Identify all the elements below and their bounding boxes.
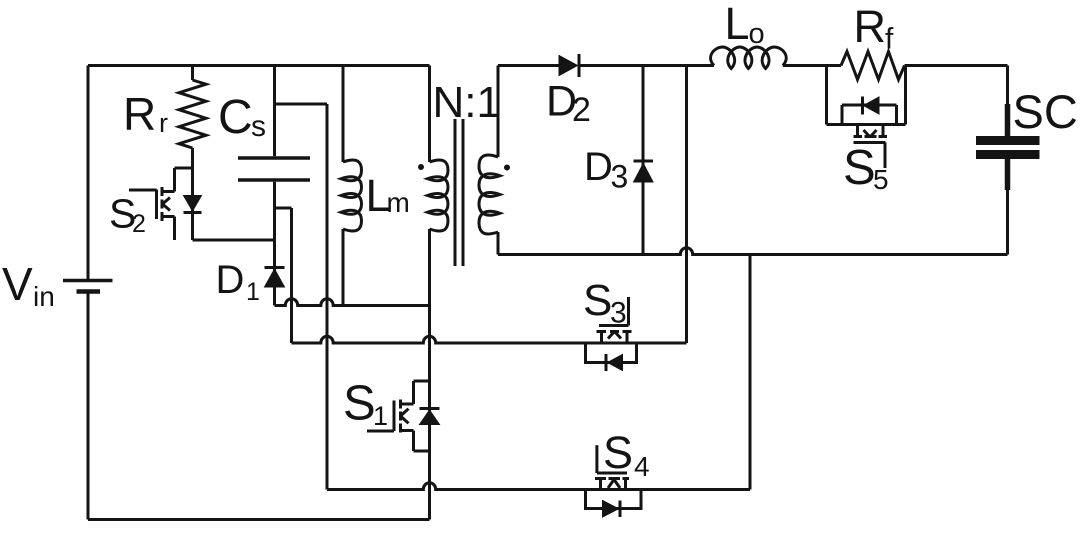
inductor Lo [711,47,787,69]
svg-text:in: in [33,281,55,312]
svg-text:L: L [725,0,750,49]
label D3 [584,145,628,195]
diode D3 [634,161,654,182]
wire Lo to Rf [783,64,841,67]
transistor S5 frame [827,66,906,125]
wire S4 row [327,483,750,490]
svg-text:1: 1 [246,278,260,306]
label Cs [218,91,266,144]
svg-text:2: 2 [132,210,146,238]
body diode of S1 [420,409,440,425]
transformer secondary winding [479,66,500,255]
transformer core [455,119,463,266]
wire S3 row [292,336,687,343]
svg-text:3: 3 [611,159,629,195]
resistor Rf [841,52,905,80]
svg-text:R: R [123,88,156,140]
svg-text:f: f [885,23,894,56]
label SC [1013,85,1078,138]
svg-text:s: s [251,110,266,143]
wire S4 right riser [749,255,752,490]
label Rf [854,1,895,56]
svg-text:o: o [749,18,765,50]
wire secondary bottom rail [498,248,1008,255]
svg-text:4: 4 [634,451,650,482]
supercapacitor SC [976,141,1040,155]
label N:1 [433,78,501,127]
label S1 [343,377,388,432]
transistor S4 [586,445,642,508]
wire top-left rail [88,64,430,67]
transistor S5 [854,125,888,169]
svg-text:D: D [216,258,245,302]
label D1 [216,258,260,306]
svg-text:S: S [583,276,612,325]
svg-text:3: 3 [610,297,627,330]
wire bottom-left rail [88,518,430,521]
label S5 [843,141,889,195]
svg-text:S: S [603,427,633,478]
diode D2 [559,54,579,77]
body diode of S2 [184,196,202,213]
wire D1 node across to primary-bottom [275,299,430,306]
capacitor Cs [238,66,310,306]
label Lm [366,170,410,221]
label D2 [546,78,591,130]
diode D1 [265,268,285,288]
wire Rf to SC [905,64,1008,67]
supercapacitor SC lead bottom [1006,158,1009,255]
svg-text:S: S [843,141,876,195]
svg-text:5: 5 [873,164,889,195]
label Rr [123,88,168,140]
svg-text:m: m [387,187,410,218]
secondary phase dot [504,165,510,171]
label S3 [583,276,627,330]
label S2 [109,191,146,239]
svg-text:1: 1 [373,401,388,431]
svg-text:SC: SC [1013,85,1078,138]
primary phase dot [418,164,424,170]
body diode of S3 [606,354,623,371]
svg-text:V: V [2,258,33,310]
svg-text:D: D [584,145,613,189]
svg-text:r: r [159,108,168,138]
wire vertical column to S4 [326,104,329,490]
svg-text:N:1: N:1 [433,78,501,127]
svg-text:2: 2 [572,91,591,129]
transistor S3 [586,297,637,363]
battery Vin [63,281,113,292]
wire battery to bottom-left rail [87,293,90,520]
svg-text:R: R [854,1,887,52]
wire secondary top rail to D2 [498,64,559,67]
supercapacitor SC lead top [1006,66,1009,138]
body diode of S5 [863,97,880,115]
wire D2 to Lo [579,64,714,67]
label Lo [725,0,765,50]
body diode of S4 [603,501,621,518]
wire left vertical from rail to battery [87,66,90,280]
wire S3 right riser [685,66,688,344]
svg-text:C: C [218,91,253,144]
transistor S1 [367,381,430,451]
svg-text:S: S [343,377,376,431]
label S4 [603,427,650,482]
wire branch Cs-bottom to S3 column [275,207,292,210]
wire branch Cs-top to S4 column [275,103,328,106]
transformer primary winding [428,66,449,520]
resistor Rr [179,66,206,169]
transistor S2 [129,148,193,240]
wire vertical column to S3 [290,208,293,343]
label Vin [2,258,55,312]
wire S2 source to Cs/D1 node [193,239,275,242]
diode D3 branch [642,66,645,255]
inductor Lm [341,66,362,306]
body diode loop of S5 [842,105,897,125]
